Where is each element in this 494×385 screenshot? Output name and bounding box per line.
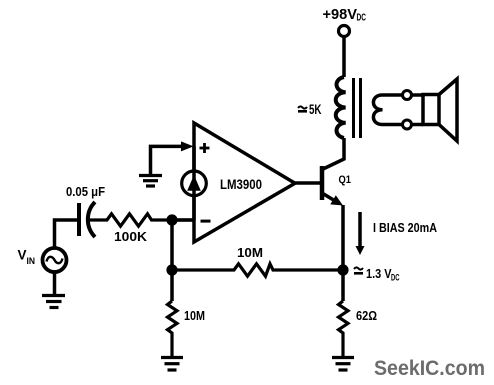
- svg-text:100K: 100K: [114, 230, 147, 244]
- svg-text:10M: 10M: [237, 245, 263, 260]
- svg-text:DC: DC: [391, 273, 400, 284]
- svg-text:V: V: [18, 248, 27, 263]
- svg-text:LM3900: LM3900: [220, 177, 262, 192]
- svg-text:I BIAS 20mA: I BIAS 20mA: [373, 220, 437, 235]
- svg-text:1.3 V: 1.3 V: [366, 267, 392, 281]
- svg-text:SeekIC.com: SeekIC.com: [374, 357, 485, 380]
- svg-text:62Ω: 62Ω: [356, 309, 377, 323]
- svg-text:Q1: Q1: [339, 174, 352, 186]
- svg-text:5K: 5K: [309, 102, 322, 117]
- svg-text:DC: DC: [357, 13, 367, 24]
- svg-text:+98V: +98V: [323, 6, 358, 23]
- svg-text:0.05 μF: 0.05 μF: [66, 185, 105, 199]
- svg-text:IN: IN: [27, 256, 36, 267]
- svg-text:10M: 10M: [184, 309, 205, 323]
